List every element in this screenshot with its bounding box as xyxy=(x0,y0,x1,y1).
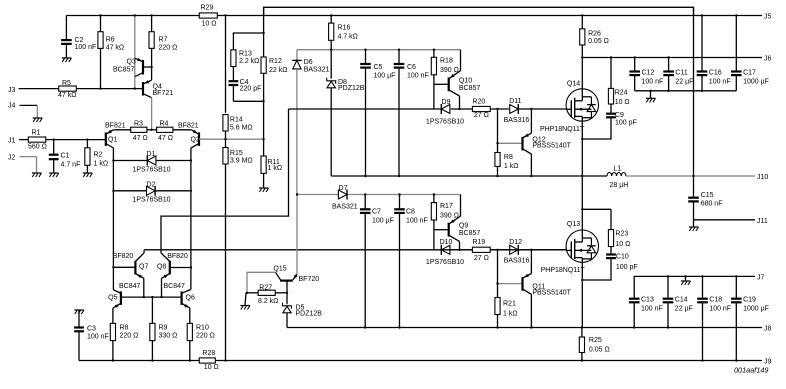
svg-text:C7: C7 xyxy=(372,209,381,216)
svg-text:BC857: BC857 xyxy=(459,85,481,92)
mosfet Q14 xyxy=(540,80,599,133)
svg-text:Q6: Q6 xyxy=(186,295,195,302)
svg-text:C13: C13 xyxy=(641,297,654,304)
junction (531.4,109) xyxy=(530,108,532,110)
svg-text:100 nF: 100 nF xyxy=(75,44,97,51)
svg-text:BF820: BF820 xyxy=(113,253,134,260)
svg-text:100 nF: 100 nF xyxy=(407,72,429,79)
junction (331.2,15.5) xyxy=(330,14,332,16)
svg-text:680 nF: 680 nF xyxy=(701,201,723,208)
svg-text:1000 µF: 1000 µF xyxy=(743,79,769,86)
svg-text:C5: C5 xyxy=(374,64,383,71)
svg-text:Q2: Q2 xyxy=(191,137,200,144)
svg-text:BAS316: BAS316 xyxy=(504,117,530,124)
wire Q4 collector gray xyxy=(151,98,153,130)
wire gray current-limit xyxy=(134,16,136,89)
junction (736.3,276.4) xyxy=(735,275,737,277)
resistor R26 xyxy=(580,16,609,58)
node J3 wire xyxy=(8,87,59,94)
snubber C9 xyxy=(582,104,636,139)
svg-text:C2: C2 xyxy=(75,37,84,44)
svg-text:0.05 Ω: 0.05 Ω xyxy=(589,347,610,354)
svg-text:J9: J9 xyxy=(764,359,772,366)
junction (702.5,276.4) xyxy=(701,275,703,277)
svg-text:R5: R5 xyxy=(62,80,71,87)
svg-text:D1: D1 xyxy=(147,151,156,158)
svg-text:100 pF: 100 pF xyxy=(615,119,637,126)
wire Q13 source xyxy=(581,262,583,327)
svg-text:1 kΩ: 1 kΩ xyxy=(503,310,518,317)
resistor R12 xyxy=(261,7,287,139)
node J5 label xyxy=(764,14,772,21)
mosfet Q13 xyxy=(541,221,599,274)
junction (190.9,267.5) xyxy=(190,266,192,268)
wire J11 xyxy=(694,218,768,227)
capacitor C6 xyxy=(394,50,429,176)
junction (531.4,176) xyxy=(530,175,532,177)
junction (151.6,15.5) xyxy=(150,14,152,16)
wire Q12 base gray xyxy=(498,142,523,144)
svg-text:J10: J10 xyxy=(757,174,768,181)
capacitor C7 xyxy=(360,195,394,328)
junction (702,15.5) xyxy=(701,14,703,16)
diode D7 xyxy=(332,185,358,211)
junction (582.3,57.5) xyxy=(581,56,583,58)
svg-text:D10: D10 xyxy=(440,239,453,246)
transistor Q3 xyxy=(113,58,152,77)
svg-text:D7: D7 xyxy=(339,185,348,192)
junction (287,292.8) xyxy=(286,292,288,294)
svg-text:220 Ω: 220 Ω xyxy=(120,332,139,339)
svg-text:C17: C17 xyxy=(743,70,756,77)
svg-text:BF820: BF820 xyxy=(167,253,188,260)
svg-text:2.2 kΩ: 2.2 kΩ xyxy=(239,58,259,65)
junction (113.4,190.8) xyxy=(112,190,114,192)
svg-text:C15: C15 xyxy=(701,192,714,199)
svg-text:R3: R3 xyxy=(134,121,143,128)
ground top gnd bus xyxy=(646,98,656,102)
junction (247,292.8) xyxy=(246,292,248,294)
svg-text:D6: D6 xyxy=(304,59,313,66)
wire J8 rail xyxy=(287,326,772,333)
transistor Q11 xyxy=(523,250,572,328)
diode D12 xyxy=(504,239,567,265)
junction (581.9,327.5) xyxy=(581,326,583,328)
svg-text:100 µF: 100 µF xyxy=(374,72,396,79)
svg-text:BF821: BF821 xyxy=(178,123,199,130)
svg-text:R15: R15 xyxy=(230,150,243,157)
svg-text:R24: R24 xyxy=(615,89,628,96)
svg-text:Q7: Q7 xyxy=(139,264,148,271)
resistor R7 xyxy=(149,16,177,81)
transistor Q6 xyxy=(164,283,195,323)
svg-text:PBSS5140T: PBSS5140T xyxy=(532,143,571,150)
svg-text:47 kΩ: 47 kΩ xyxy=(106,45,124,52)
junction (112.9,360.5) xyxy=(112,359,114,361)
wire bottom negative rail (J9) xyxy=(79,359,772,366)
resistor R14 xyxy=(223,16,253,148)
svg-text:R7: R7 xyxy=(159,37,168,44)
junction (702.5,360.5) xyxy=(701,359,703,361)
svg-text:Q10: Q10 xyxy=(459,78,472,85)
wire Q14 drain xyxy=(581,58,583,89)
svg-text:27 Ω: 27 Ω xyxy=(474,112,489,119)
svg-text:C10: C10 xyxy=(616,254,629,261)
ground C1 xyxy=(49,173,59,177)
transistor Q15 xyxy=(273,266,319,293)
resistor R21 xyxy=(495,250,518,328)
wire J7 rail xyxy=(634,274,764,298)
svg-text:1 kΩ: 1 kΩ xyxy=(504,163,519,170)
capacitor C19 xyxy=(731,276,769,360)
ground J4 xyxy=(33,118,43,122)
wire feedback rail y=7.3 xyxy=(264,7,694,15)
svg-text:R25: R25 xyxy=(589,337,602,344)
node J2 xyxy=(8,155,37,174)
svg-text:R21: R21 xyxy=(503,300,516,307)
junction (225.5,15.5) xyxy=(224,14,226,16)
diode D6 xyxy=(292,50,329,195)
junction (611,57.5) xyxy=(610,56,612,58)
svg-text:R10: R10 xyxy=(196,324,209,331)
resistor R9 xyxy=(150,297,178,360)
svg-text:C3: C3 xyxy=(87,326,96,333)
wire output rail y=176 xyxy=(331,175,607,177)
resistor R3 xyxy=(113,121,156,143)
junction (263.6,101.3) xyxy=(262,100,264,102)
svg-text:1PS76SB10: 1PS76SB10 xyxy=(426,119,464,126)
capacitor C3 xyxy=(74,310,109,361)
junction (263.6,33) xyxy=(262,32,264,34)
zener D5 xyxy=(283,293,323,328)
resistor R4 xyxy=(157,121,192,143)
resistor R15 xyxy=(223,148,253,361)
junction (497.5,143.3) xyxy=(496,142,498,144)
junction (297,194.5) xyxy=(296,193,298,195)
svg-text:PDZ12B: PDZ12B xyxy=(338,85,365,92)
junction (399.5,327.5) xyxy=(398,326,400,328)
wire Q13 drain xyxy=(582,176,611,230)
svg-text:3.9 MΩ: 3.9 MΩ xyxy=(230,158,253,165)
junction (151.6,129.8) xyxy=(150,129,152,131)
junction (113.4,267.3) xyxy=(112,266,114,268)
junction (225.5,139.2) xyxy=(224,138,226,140)
svg-text:10 Ω: 10 Ω xyxy=(204,364,219,371)
svg-text:Q14: Q14 xyxy=(567,80,580,87)
junction (151.6,67) xyxy=(150,66,152,68)
svg-text:10 Ω: 10 Ω xyxy=(615,241,630,248)
svg-text:R9: R9 xyxy=(159,324,168,331)
junction (634.7,57.5) xyxy=(634,56,636,58)
junction (433.9,194.5) xyxy=(433,193,435,195)
svg-text:1 kΩ: 1 kΩ xyxy=(268,165,283,172)
svg-text:R12: R12 xyxy=(269,58,282,65)
junction (668,327.5) xyxy=(667,326,669,328)
svg-text:R28: R28 xyxy=(202,350,215,357)
svg-text:J1: J1 xyxy=(8,138,16,145)
svg-text:Q9: Q9 xyxy=(459,223,468,230)
resistor R11 xyxy=(261,139,282,188)
transistor Q5 xyxy=(108,283,140,323)
wire J6 rail xyxy=(582,56,771,63)
junction (582.3,139) xyxy=(581,138,583,140)
junction (459.5,249.8) xyxy=(458,249,460,251)
svg-text:BC847: BC847 xyxy=(119,283,141,290)
junction (152.4,360.5) xyxy=(151,359,153,361)
svg-text:J2: J2 xyxy=(8,155,16,162)
svg-text:100 nF: 100 nF xyxy=(709,79,731,86)
resistor R29 xyxy=(199,5,217,28)
svg-text:R18: R18 xyxy=(440,58,453,65)
resistor R28 xyxy=(199,350,218,371)
svg-text:PHP18NQ11T: PHP18NQ11T xyxy=(540,126,585,133)
svg-text:R16: R16 xyxy=(338,25,351,32)
svg-text:R8: R8 xyxy=(504,154,513,161)
svg-text:C9: C9 xyxy=(615,112,624,119)
diode D9 xyxy=(426,99,472,126)
svg-text:47 Ω: 47 Ω xyxy=(133,135,148,142)
svg-text:Q15: Q15 xyxy=(273,266,286,273)
resistor R13 xyxy=(231,33,264,80)
junction (365.5,176) xyxy=(364,175,366,177)
resistor R16 xyxy=(329,16,358,79)
svg-text:R14: R14 xyxy=(230,117,243,124)
svg-text:100 pF: 100 pF xyxy=(616,264,638,271)
junction (668,276.4) xyxy=(667,275,669,277)
junction (87.4,139.6) xyxy=(86,138,88,140)
snubber R24 xyxy=(608,58,629,107)
junction (497.5,283.6) xyxy=(496,282,498,284)
svg-text:R27: R27 xyxy=(259,285,272,292)
svg-text:J6: J6 xyxy=(764,56,772,63)
svg-text:BAS321: BAS321 xyxy=(332,204,358,211)
svg-text:R19: R19 xyxy=(472,239,485,246)
zener D8 xyxy=(327,78,365,176)
svg-text:Q5: Q5 xyxy=(108,295,117,302)
junction (189.8,360.5) xyxy=(189,359,191,361)
svg-text:C6: C6 xyxy=(407,64,416,71)
svg-text:R29: R29 xyxy=(201,5,214,12)
svg-text:D12: D12 xyxy=(509,239,522,246)
junction (582.3,209.3) xyxy=(581,208,583,210)
inductor L1 xyxy=(607,165,628,189)
svg-text:C11: C11 xyxy=(675,70,687,77)
svg-text:J3: J3 xyxy=(8,87,16,94)
svg-text:0.05 Ω: 0.05 Ω xyxy=(588,38,609,45)
junction (399,49.7) xyxy=(398,49,400,51)
ground R27 xyxy=(240,293,250,310)
resistor R6 xyxy=(98,16,124,89)
capacitor C1 xyxy=(49,140,81,173)
svg-text:BAS321: BAS321 xyxy=(304,67,330,74)
wire high-side gate rail left xyxy=(289,108,442,110)
svg-text:1PS76SB10: 1PS76SB10 xyxy=(426,259,464,266)
junction (399,176) xyxy=(398,175,400,177)
svg-text:R1: R1 xyxy=(32,130,41,137)
svg-text:C1: C1 xyxy=(61,153,70,160)
svg-text:C12: C12 xyxy=(642,70,655,77)
capacitor C5 xyxy=(360,50,395,176)
ground R2 xyxy=(83,173,93,177)
resistor R20 xyxy=(472,99,508,120)
junction (736.3,15.5) xyxy=(735,14,737,16)
svg-text:D11: D11 xyxy=(509,98,521,105)
svg-text:1000 µF: 1000 µF xyxy=(743,306,769,313)
svg-text:27 Ω: 27 Ω xyxy=(474,255,489,262)
svg-text:100 nF: 100 nF xyxy=(87,333,109,340)
wire top supply rail y=15.5 (J5 rail) xyxy=(66,15,762,17)
wire top gnd bus xyxy=(635,91,737,99)
capacitor C12 xyxy=(629,58,663,91)
figure id xyxy=(734,366,769,375)
svg-text:J8: J8 xyxy=(764,326,772,333)
transistor Q8 xyxy=(157,109,289,297)
diode D11 xyxy=(504,98,567,124)
junction (582.3,176) xyxy=(581,175,583,177)
junction (331.2,49.7) xyxy=(330,49,332,51)
transistor Q4 xyxy=(143,80,173,98)
wire Q5/Q6 base rail xyxy=(121,296,182,298)
capacitor C18 xyxy=(697,276,731,360)
svg-text:BF821: BF821 xyxy=(105,123,126,130)
wire low-side gate rail xyxy=(144,249,567,251)
svg-text:PHP18NQ11T: PHP18NQ11T xyxy=(541,267,586,274)
wire Q15 collector gray xyxy=(247,272,276,293)
svg-text:D2: D2 xyxy=(147,182,156,189)
junction (263.6,139.2) xyxy=(262,138,264,140)
diode D1 xyxy=(113,151,190,173)
svg-text:J11: J11 xyxy=(757,218,768,225)
junction (399.5,194.5) xyxy=(398,193,400,195)
capacitor C15 xyxy=(688,192,722,220)
wire Q15 emitter gray xyxy=(296,195,298,275)
svg-text:001aaf149: 001aaf149 xyxy=(734,366,769,375)
wire Q14 source xyxy=(581,121,583,176)
diode D10 xyxy=(426,239,472,266)
resistor R19 xyxy=(472,239,508,262)
transistor Q12 xyxy=(523,109,572,176)
junction (497.5,327.5) xyxy=(496,326,498,328)
junction (143.8,297.1) xyxy=(143,296,145,298)
capacitor C8 xyxy=(394,195,428,328)
svg-text:47 Ω: 47 Ω xyxy=(158,135,173,142)
transistor Q7 xyxy=(113,250,149,297)
svg-text:R20: R20 xyxy=(472,99,485,106)
svg-text:28 µH: 28 µH xyxy=(610,182,629,189)
junction (190.9,160.5) xyxy=(190,159,192,161)
svg-text:Q8: Q8 xyxy=(157,264,166,271)
junction (365.5,49.7) xyxy=(364,49,366,51)
svg-text:220 Ω: 220 Ω xyxy=(159,45,178,52)
junction (581.9,360.5) xyxy=(581,359,583,361)
junction (459.5,109) xyxy=(458,108,460,110)
junction (161.5,297.1) xyxy=(160,296,162,298)
svg-text:PDZ12B: PDZ12B xyxy=(296,311,323,318)
svg-text:R17: R17 xyxy=(440,203,453,210)
svg-text:C8: C8 xyxy=(406,209,415,216)
svg-text:C14: C14 xyxy=(675,297,688,304)
ground R11 xyxy=(259,188,269,192)
junction (497.5,109) xyxy=(496,108,498,110)
svg-text:Q1: Q1 xyxy=(108,137,117,144)
svg-text:100 µF: 100 µF xyxy=(372,218,394,225)
capacitor C4 xyxy=(229,79,264,101)
svg-text:R4: R4 xyxy=(160,121,169,128)
capacitor C16 xyxy=(697,16,731,91)
svg-text:220 Ω: 220 Ω xyxy=(196,332,215,339)
resistor R2 xyxy=(85,140,108,173)
diode D2 xyxy=(113,182,190,204)
wire L1 to J10 gray xyxy=(626,174,768,181)
snubber R23 xyxy=(608,209,630,248)
transistor Q9 xyxy=(434,195,481,250)
svg-text:4.7 kΩ: 4.7 kΩ xyxy=(338,34,358,41)
svg-text:560 Ω: 560 Ω xyxy=(28,144,47,151)
svg-text:BAS316: BAS316 xyxy=(504,258,530,265)
svg-text:8.2 kΩ: 8.2 kΩ xyxy=(258,298,278,305)
junction (702,90.8) xyxy=(701,90,703,92)
svg-text:BC857: BC857 xyxy=(459,230,481,237)
junction (582.3,280) xyxy=(581,279,583,281)
transistor Q10 xyxy=(434,50,481,109)
svg-text:4.7 nF: 4.7 nF xyxy=(61,162,81,169)
wire feedback column xyxy=(693,7,695,197)
capacitor C13 xyxy=(629,297,663,328)
svg-text:100 nF: 100 nF xyxy=(641,306,663,313)
junction (582.3,15.5) xyxy=(581,14,583,16)
junction (100.5,88.6) xyxy=(99,87,101,89)
resistor R10 xyxy=(187,323,215,360)
svg-text:10 Ω: 10 Ω xyxy=(615,99,630,106)
junction (190.9,190.8) xyxy=(190,190,192,192)
ground C2 xyxy=(62,58,72,62)
svg-text:5.6 MΩ: 5.6 MΩ xyxy=(230,124,253,131)
svg-text:BC847: BC847 xyxy=(164,283,186,290)
resistor R8 1k xyxy=(495,109,519,176)
junction (365.2,194.5) xyxy=(364,193,366,195)
junction (113.4,160.5) xyxy=(112,159,114,161)
svg-text:PBSS5140T: PBSS5140T xyxy=(532,289,571,296)
junction (531.4,249.8) xyxy=(530,249,532,251)
svg-text:1PS76SB10: 1PS76SB10 xyxy=(132,197,170,204)
svg-text:100 nF: 100 nF xyxy=(709,306,731,313)
svg-text:R23: R23 xyxy=(615,231,628,238)
svg-text:22 µF: 22 µF xyxy=(675,79,693,86)
svg-text:BF720: BF720 xyxy=(299,276,320,283)
resistor R1 xyxy=(28,130,106,151)
svg-text:1PS76SB10: 1PS76SB10 xyxy=(132,166,170,173)
junction (685.5,276.4) xyxy=(684,275,686,277)
svg-text:R8: R8 xyxy=(120,324,129,331)
junction (134.8,15.5) xyxy=(134,14,136,16)
capacitor C14 xyxy=(663,276,693,327)
resistor R18 xyxy=(431,50,459,109)
svg-text:J7: J7 xyxy=(757,274,765,281)
junction (225.5,360.5) xyxy=(224,359,226,361)
junction (634.2,327.5) xyxy=(633,326,635,328)
junction (433.9,49.7) xyxy=(433,49,435,51)
svg-text:J5: J5 xyxy=(764,14,772,21)
junction (53.7,139.6) xyxy=(53,138,55,140)
ground J11 xyxy=(689,227,699,231)
svg-text:R26: R26 xyxy=(588,31,601,38)
wire gray low-side supply rail xyxy=(297,194,461,196)
svg-text:C18: C18 xyxy=(709,297,722,304)
resistor R17 xyxy=(431,195,459,250)
svg-text:1 kΩ: 1 kΩ xyxy=(94,161,109,168)
svg-text:R2: R2 xyxy=(94,152,103,159)
capacitor C2 xyxy=(61,16,96,58)
